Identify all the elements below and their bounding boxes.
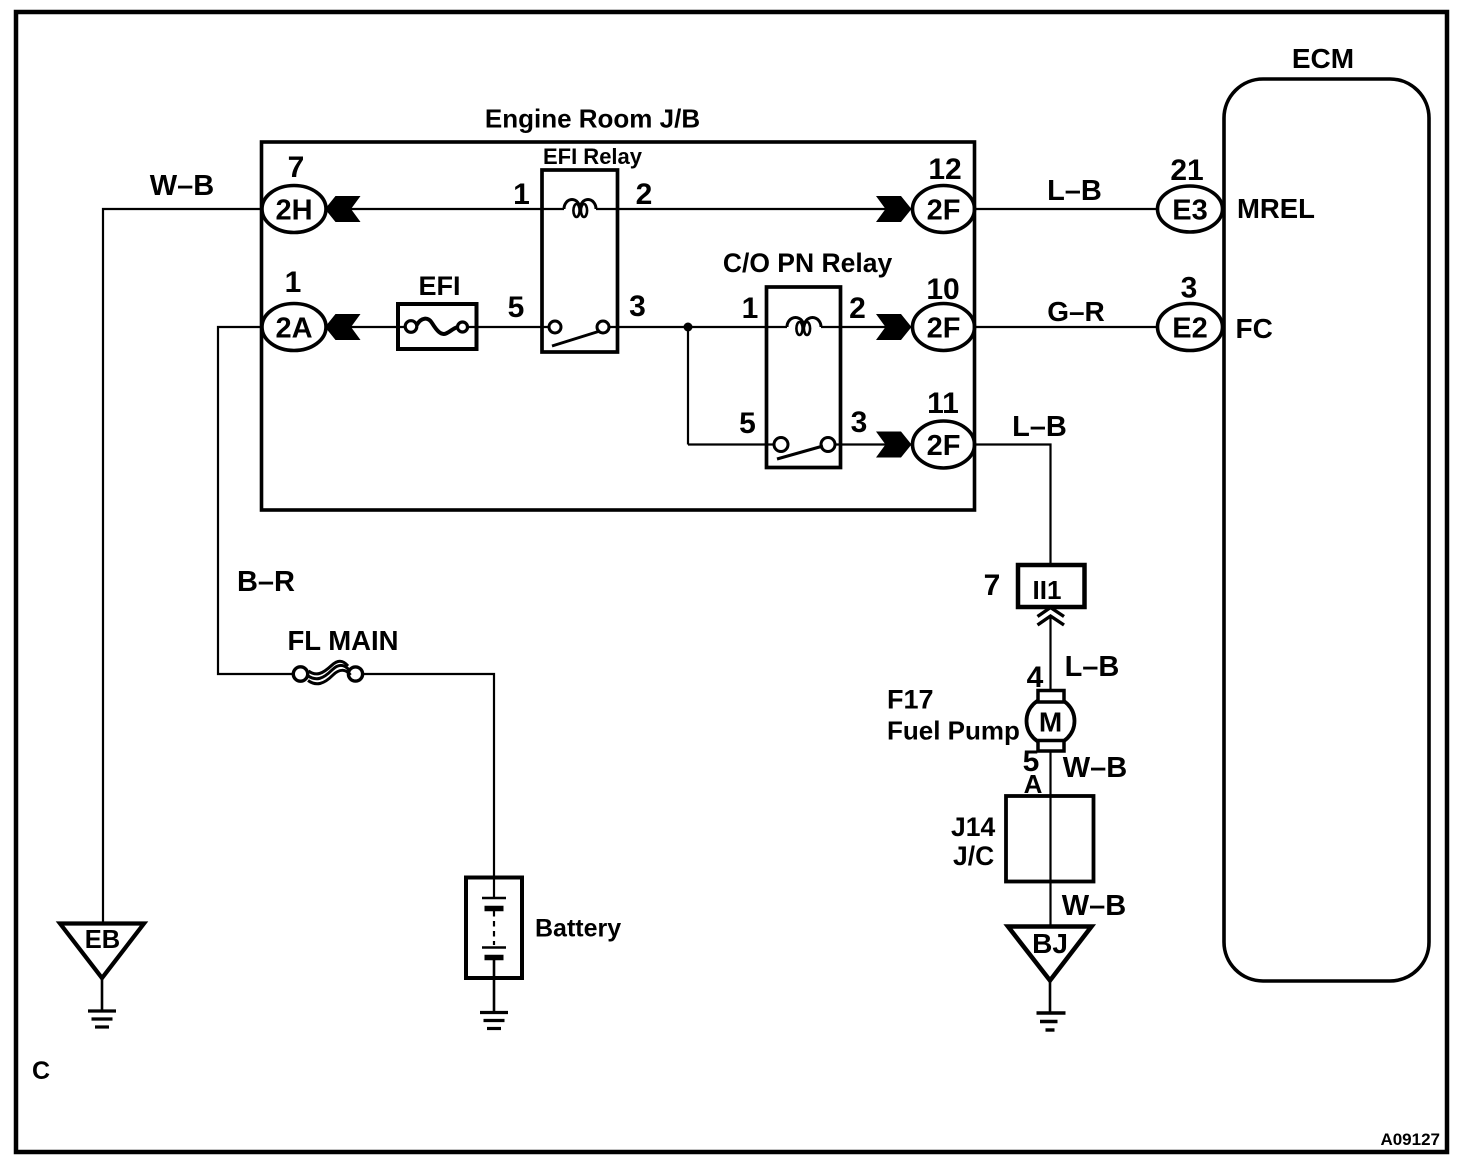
BJ ground stem [1049,981,1052,1013]
svg-text:EFI: EFI [418,271,460,301]
svg-text:L–B: L–B [1065,651,1120,683]
svg-text:5: 5 [739,407,756,440]
ground BJ triangle [1008,927,1092,981]
svg-text:1: 1 [285,266,302,299]
wire row2 segment C/O coil to 2F [821,326,913,328]
wire II1 to fuel pump [1049,617,1051,691]
harness arrow at 2A [325,314,361,340]
harness arrow at 2H [325,196,361,222]
connector E2 [1158,304,1223,351]
wire 2F to E2 [975,326,1158,328]
svg-text:1: 1 [513,178,530,211]
svg-text:7: 7 [288,151,305,184]
wire pump to J/C [1049,751,1051,796]
wire FL MAIN to battery [363,674,495,898]
wire row3 right segment [835,443,913,445]
svg-text:W–B: W–B [1063,752,1127,784]
svg-text:W–B: W–B [150,170,214,202]
wire W-B from 2H to EB ground [103,209,262,924]
wire row1 left segment [326,208,564,210]
wire 2F row3 to II1 [975,445,1051,566]
EB ground stem [101,978,104,1010]
svg-text:E3: E3 [1172,195,1207,227]
svg-text:Engine Room J/B: Engine Room J/B [485,104,700,134]
C/O PN relay switch [774,438,788,452]
EFI fuse box [398,304,477,349]
svg-text:2F: 2F [927,195,961,227]
svg-text:EB: EB [85,926,120,954]
wire through J/C [1049,796,1051,927]
svg-text:2H: 2H [275,195,312,227]
battery ground symbol [480,1011,508,1014]
svg-text:II1: II1 [1033,575,1062,605]
junction block J14 J/C [1006,796,1094,882]
chevron arrows below II1 [1038,608,1065,617]
svg-text:3: 3 [851,406,868,439]
svg-text:F17: F17 [887,685,934,715]
svg-text:ECM: ECM [1292,43,1354,74]
svg-text:2A: 2A [275,313,312,345]
connector 2F row2 [913,304,975,351]
harness arrow at 2F row1 [876,196,912,222]
svg-text:11: 11 [927,387,959,420]
svg-text:2F: 2F [927,430,961,462]
harness arrow at 2F row3 [876,432,912,458]
svg-text:2: 2 [849,292,866,325]
svg-text:BJ: BJ [1032,928,1068,959]
svg-text:A09127: A09127 [1380,1130,1440,1149]
C/O PN relay box [767,287,841,468]
EFI fuse element [405,321,417,333]
svg-text:W–B: W–B [1062,890,1126,922]
svg-text:G–R: G–R [1047,296,1105,327]
svg-text:FC: FC [1236,313,1273,344]
wire row2 segment fuse to relay [468,326,549,328]
svg-text:L–B: L–B [1047,175,1102,207]
ECM box [1224,79,1429,981]
svg-text:2F: 2F [927,313,961,345]
connector 2A [262,304,326,351]
connector 2F row1 [913,186,975,233]
svg-text:21: 21 [1170,154,1203,187]
BJ ground symbol [1037,1011,1066,1014]
svg-text:12: 12 [928,153,961,186]
wire row2 segment relay to C/O coil [609,326,787,328]
ground EB triangle [60,924,144,979]
wire row2 segment fuse left [326,326,405,328]
svg-text:Battery: Battery [535,915,621,943]
svg-text:C/O PN Relay: C/O PN Relay [723,248,893,278]
svg-text:1: 1 [742,292,759,325]
connector 2H [262,186,326,233]
harness arrow at 2F row2 [876,314,912,340]
svg-text:7: 7 [984,569,1001,602]
connector II1 box [1018,565,1085,607]
svg-text:FL MAIN: FL MAIN [287,625,398,656]
connector E3 [1158,186,1223,232]
svg-text:3: 3 [1181,272,1198,305]
connector 2F row3 [913,421,975,468]
junction dot [684,323,693,332]
wire row3 left segment [688,443,774,445]
svg-text:L–B: L–B [1012,411,1067,443]
svg-text:J14: J14 [951,812,995,842]
EFI relay box [542,170,618,352]
EFI relay switch [549,321,561,333]
wire B-R from 2A to FL MAIN [218,327,293,674]
svg-text:3: 3 [629,290,646,323]
EB ground symbol [88,1009,116,1012]
svg-text:2: 2 [636,178,653,211]
battery ground stem [493,958,496,1012]
svg-text:5: 5 [508,291,525,324]
svg-text:EFI Relay: EFI Relay [543,144,643,169]
svg-text:M: M [1039,707,1062,738]
svg-text:J/C: J/C [953,841,994,871]
svg-text:MREL: MREL [1237,193,1315,224]
Engine Room J/B box [262,142,975,510]
wire junction vertical [687,327,689,445]
svg-text:E2: E2 [1172,313,1207,345]
svg-text:Fuel Pump: Fuel Pump [887,716,1020,746]
battery [466,878,522,979]
wire row1 right segment [596,208,913,210]
fusible link FL MAIN [293,667,307,681]
svg-text:B–R: B–R [237,566,295,598]
EFI relay coil [564,200,596,210]
svg-text:C: C [32,1057,50,1085]
fuel pump motor [1027,697,1075,745]
svg-text:10: 10 [926,273,959,306]
C/O PN relay coil [787,318,821,328]
wire 2F to E3 [975,208,1158,210]
